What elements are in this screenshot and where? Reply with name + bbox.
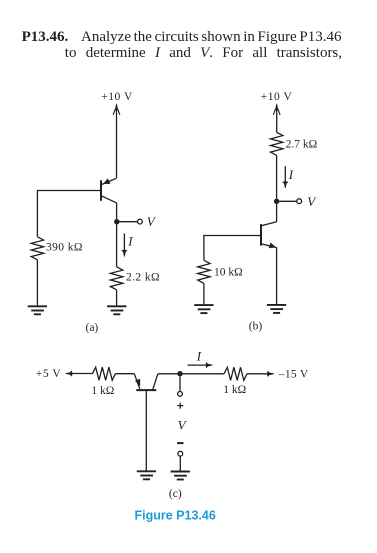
- wire node down to + terminal (c): [179, 376, 181, 391]
- open terminal V (a): [138, 219, 143, 224]
- svg-text:V: V: [307, 194, 317, 209]
- svg-text:–15 V: –15 V: [278, 369, 309, 381]
- wire terminal to ground (c right): [179, 456, 181, 470]
- resistor 10 kOhm: [198, 260, 210, 283]
- ground (a left): [28, 306, 47, 314]
- current arrow I (b): [283, 166, 288, 188]
- ground (a right): [107, 306, 126, 314]
- label + (c): [177, 403, 183, 409]
- transistor Q2 collector diagonal: [261, 222, 276, 226]
- ground (b right): [267, 305, 286, 313]
- transistor Q3 base bar (horizontal): [136, 389, 156, 391]
- transistor Q1 collector diagonal: [101, 196, 116, 203]
- resistor 1 kOhm (right): [224, 367, 247, 380]
- current arrow I (c): [188, 363, 213, 368]
- ground (c left): [137, 471, 156, 479]
- wire collector to node (c): [158, 373, 180, 375]
- svg-text:to determine I and V. For all: to determine I and V. For all transistor…: [65, 45, 342, 61]
- node (c): [177, 371, 182, 376]
- open terminal V (b): [297, 199, 302, 204]
- wire resistor to ground (a left): [36, 260, 38, 306]
- svg-text:I: I: [288, 167, 294, 182]
- wire resistor to Q3 emitter: [115, 373, 134, 375]
- transistor Q2 emitter diagonal with arrow (NPN): [261, 243, 276, 248]
- transistor Q1 emitter diagonal with arrow (PNP): [101, 178, 116, 184]
- svg-text:+10 V: +10 V: [261, 91, 293, 103]
- svg-text:V: V: [147, 214, 157, 229]
- label minus (c): [177, 442, 183, 444]
- svg-text:(a): (a): [86, 322, 99, 334]
- ground (b left): [194, 305, 213, 313]
- wire node to resistor (c): [180, 373, 224, 375]
- svg-text:V: V: [178, 417, 188, 432]
- wire node to V terminal (b): [277, 200, 297, 202]
- svg-text:10 kΩ: 10 kΩ: [214, 266, 243, 278]
- wire base to left (b): [204, 236, 261, 261]
- resistor 390 kOhm: [31, 237, 43, 260]
- wire resistor to node and collector (b): [276, 155, 278, 221]
- wire base to left (a): [37, 191, 101, 237]
- svg-text:390 kΩ: 390 kΩ: [46, 241, 83, 253]
- wire node to V terminal (a): [117, 221, 137, 223]
- svg-text:I: I: [127, 234, 133, 249]
- current arrow I (a): [122, 233, 127, 256]
- svg-text:P13.46.: P13.46.: [22, 29, 69, 45]
- left arrow to +5V: [65, 371, 92, 376]
- wire Q3 base to ground (c left): [145, 390, 147, 471]
- node (a) collector: [114, 219, 119, 224]
- problem statement line 2: [65, 45, 342, 61]
- problem statement line 1: [22, 29, 342, 45]
- svg-text:+5 V: +5 V: [36, 368, 62, 380]
- transistor Q3 emitter diagonal with arrow (PNP): [134, 374, 140, 389]
- svg-text:1 kΩ: 1 kΩ: [223, 384, 246, 396]
- svg-text:+10 V: +10 V: [101, 91, 133, 103]
- svg-text:2.7 kΩ: 2.7 kΩ: [286, 138, 318, 150]
- ground (c right): [171, 472, 190, 480]
- transistor Q3 collector diagonal: [153, 374, 158, 390]
- wire resistor to ground (a right): [116, 290, 118, 306]
- +10V supply arrow (a): [113, 104, 120, 178]
- svg-text:I: I: [196, 348, 202, 363]
- svg-text:Figure P13.46: Figure P13.46: [135, 508, 216, 522]
- wire resistor to -15V arrow: [247, 371, 274, 376]
- wire emitter to ground (b right): [276, 248, 278, 305]
- +10V supply arrow (b): [273, 104, 280, 133]
- resistor 1 kOhm (left): [92, 367, 115, 380]
- svg-text:(c): (c): [169, 488, 182, 500]
- node (b): [274, 199, 279, 204]
- svg-text:2.2 kΩ: 2.2 kΩ: [126, 272, 160, 284]
- transistor Q2 base bar: [260, 224, 262, 246]
- wire resistor to ground (b left): [203, 283, 205, 304]
- svg-text:1 kΩ: 1 kΩ: [91, 385, 114, 397]
- resistor 2.2 kOhm: [110, 267, 122, 290]
- open terminal + (c): [178, 392, 183, 397]
- svg-text:(b): (b): [249, 320, 263, 332]
- resistor 2.7 kOhm: [271, 132, 283, 155]
- wire: Q1 collector down through node to resistor: [116, 203, 118, 267]
- open terminal - (c): [178, 451, 183, 456]
- svg-text:Analyze the circuits shown in: Analyze the circuits shown in Figure P13…: [81, 29, 342, 45]
- transistor Q1 base bar: [100, 180, 102, 201]
